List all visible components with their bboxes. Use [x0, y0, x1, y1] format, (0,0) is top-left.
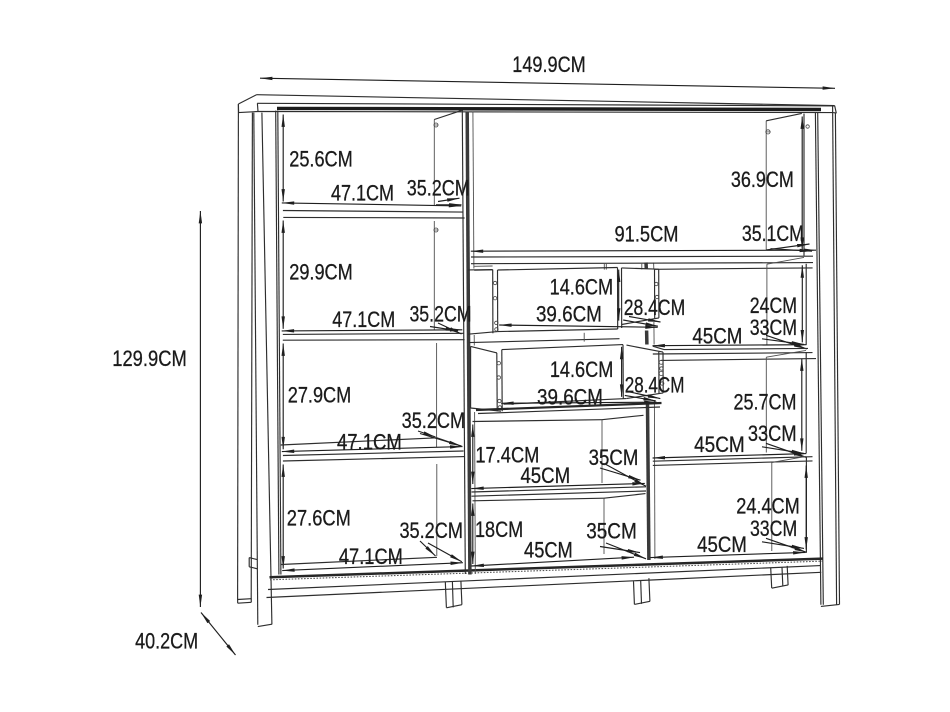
svg-text:33CM: 33CM	[750, 315, 797, 340]
middle partition	[462, 111, 475, 575]
depth arrows 35 bottom	[600, 543, 646, 559]
drawer 1 left rail	[468, 270, 498, 335]
depth arrows 28.4 drawer2	[625, 392, 661, 401]
right frame upright	[815, 106, 839, 607]
screws right partition	[659, 360, 663, 375]
top panel underside shadow band	[277, 108, 821, 109]
left frame stretcher	[249, 558, 257, 569]
svg-text:45CM: 45CM	[524, 537, 573, 562]
dimension 40.2CM arrow	[201, 613, 236, 656]
svg-text:33CM: 33CM	[750, 516, 797, 541]
compartment 24 back corner	[767, 257, 804, 344]
height arrow 24.4	[805, 466, 807, 550]
floor back edge left column	[281, 557, 437, 564]
height arrow 36.9	[801, 117, 803, 250]
height arrow 25.6	[282, 115, 284, 202]
top panel	[238, 95, 836, 114]
compartment 4 back corner	[436, 464, 438, 556]
drawer 1 front panel	[493, 268, 622, 334]
drawer 2 right side panel	[626, 345, 663, 399]
compartment 24.4 front corner	[805, 457, 807, 552]
floor dim 45CM middle	[472, 557, 635, 566]
compartment 18 back wall top	[473, 494, 646, 554]
shelf 3 with dim 47.1CM	[282, 438, 465, 461]
floor dim 47.1CM row4	[282, 563, 463, 571]
svg-text:39.6CM: 39.6CM	[536, 301, 602, 326]
svg-text:35.2CM: 35.2CM	[399, 518, 463, 543]
svg-text:45CM: 45CM	[520, 463, 570, 488]
depth arrows 33 row3	[762, 538, 807, 552]
compartment 2 back corner	[433, 221, 435, 330]
svg-text:91.5CM: 91.5CM	[615, 222, 679, 247]
compartment 25.7 front corner	[805, 352, 807, 453]
svg-text:28.4CM: 28.4CM	[625, 372, 685, 397]
depth arrows 33 row2	[762, 443, 807, 457]
right partition	[646, 263, 655, 561]
back leg under middle partition	[445, 581, 462, 608]
compartment 24.4 back corner	[772, 456, 807, 551]
back leg under right wall	[771, 566, 788, 588]
rail between drawers	[469, 333, 620, 343]
svg-text:27.6CM: 27.6CM	[287, 506, 351, 531]
height arrow 18	[472, 504, 474, 565]
drawer 2 left side panel	[471, 346, 501, 411]
height arrow 14.6 drawer2	[621, 347, 623, 397]
drawer 1 screws	[493, 281, 658, 331]
svg-text:47.1CM: 47.1CM	[339, 544, 403, 569]
drawer 2 front panel	[497, 345, 626, 412]
svg-text:45CM: 45CM	[694, 432, 745, 457]
width arrow 39.6 drawer1	[499, 325, 658, 327]
MIDDLE TOP SHELF under 91.5 compartment	[471, 250, 816, 270]
bottom panel hatched edge	[270, 559, 823, 580]
compartment 3 back corner	[436, 343, 438, 447]
height arrow 14.6 drawer1	[618, 270, 620, 321]
height arrow 27.6	[282, 465, 284, 569]
svg-text:36.9CM: 36.9CM	[731, 167, 794, 192]
height arrow 29.9	[282, 221, 284, 329]
svg-text:14.6CM: 14.6CM	[550, 274, 614, 299]
compartment 25.7 back corner	[766, 350, 806, 452]
width arrow 39.6 drawer2	[501, 402, 656, 403]
svg-text:24.4CM: 24.4CM	[736, 494, 800, 519]
depth arrows 35.2 row4	[420, 541, 462, 562]
shelf 1 with dim 47.1CM	[282, 203, 465, 218]
drawer 2 screws	[497, 362, 664, 410]
dimension 129.9CM arrow	[199, 211, 201, 607]
board under drawer 2	[476, 403, 662, 414]
depth arrows 35.1	[766, 244, 812, 251]
svg-text:47.1CM: 47.1CM	[332, 307, 395, 332]
svg-text:25.6CM: 25.6CM	[289, 146, 353, 171]
depth arrows 35.2 row1	[436, 198, 462, 205]
svg-text:14.6CM: 14.6CM	[550, 357, 614, 382]
left side wall of carcass	[276, 111, 281, 575]
shelf 3 back edge	[281, 438, 437, 445]
svg-text:35.2CM: 35.2CM	[409, 301, 471, 326]
screws left column	[434, 123, 439, 232]
top right compartment right wall	[766, 113, 804, 255]
middle shelf with dim 45CM	[471, 483, 646, 496]
back leg under right partition	[634, 578, 651, 604]
svg-text:35CM: 35CM	[589, 445, 639, 470]
svg-text:47.1CM: 47.1CM	[331, 180, 394, 205]
left frame front leg	[254, 113, 272, 627]
svg-text:18CM: 18CM	[475, 517, 523, 542]
svg-text:35.1CM: 35.1CM	[742, 221, 804, 246]
svg-text:45CM: 45CM	[697, 532, 747, 557]
height arrow 24	[801, 265, 803, 342]
shelf R1 with dim 45CM	[653, 345, 817, 361]
height arrow 25.7	[801, 359, 803, 451]
compartment 1 back corner	[434, 110, 462, 205]
svg-text:45CM: 45CM	[692, 323, 742, 348]
depth arrows 35.2 row2	[430, 323, 462, 334]
svg-text:149.9CM: 149.9CM	[512, 52, 586, 77]
depth arrows 35.2 row3	[418, 431, 461, 446]
dimension 149.9CM arrow	[260, 78, 835, 88]
svg-text:25.7CM: 25.7CM	[734, 389, 797, 414]
svg-text:29.9CM: 29.9CM	[289, 260, 353, 285]
height arrow 17.4	[472, 425, 474, 485]
floor dim 45CM right	[651, 552, 806, 557]
shelf 2 with dim 47.1CM	[282, 330, 465, 340]
svg-text:47.1CM: 47.1CM	[337, 429, 402, 454]
depth arrows 28.4 drawer1	[623, 317, 660, 327]
drawer 1 right side panel	[622, 268, 659, 325]
svg-text:129.9CM: 129.9CM	[112, 346, 187, 371]
compartment 24 front corner	[805, 264, 807, 345]
svg-text:27.9CM: 27.9CM	[288, 382, 352, 407]
svg-text:28.4CM: 28.4CM	[624, 295, 686, 320]
height arrow 27.9	[282, 344, 284, 450]
compartment 17.4 back wall top	[473, 415, 644, 483]
svg-text:35CM: 35CM	[586, 519, 637, 544]
depth arrows 35 top	[600, 465, 646, 487]
screw top right wall	[765, 125, 809, 134]
svg-text:35.2CM: 35.2CM	[407, 176, 470, 201]
shelf R2 with dim 45CM	[653, 454, 813, 466]
depth arrows 33 row1	[762, 335, 807, 349]
svg-text:33CM: 33CM	[748, 421, 797, 446]
left frame back leg	[238, 104, 253, 603]
svg-text:40.2CM: 40.2CM	[135, 628, 198, 653]
bottom panel front face	[267, 566, 822, 598]
svg-text:35.2CM: 35.2CM	[402, 408, 466, 433]
